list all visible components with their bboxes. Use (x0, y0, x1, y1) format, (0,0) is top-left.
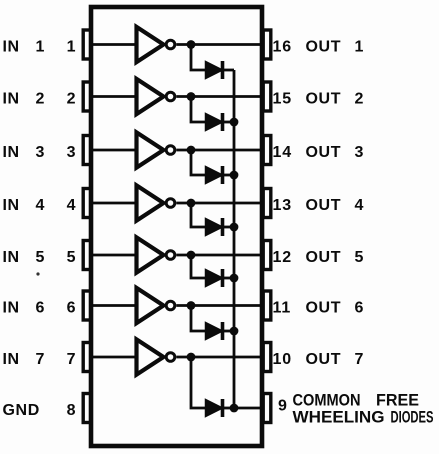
wire diode D1 cathode to common rail (223, 69, 235, 72)
net label IN 7 (3, 351, 46, 368)
svg-text:OUT: OUT (306, 144, 342, 161)
wire junction to diode D2 anode (191, 97, 206, 123)
net label OUT 6 (306, 300, 365, 317)
svg-text:1: 1 (67, 39, 76, 56)
junction node diode D4 cathode on rail (230, 223, 239, 232)
inverter U6 (137, 288, 175, 323)
svg-text:5: 5 (355, 249, 365, 266)
diode D7 (206, 399, 223, 417)
svg-text:IN: IN (3, 197, 20, 214)
junction node diode D7 cathode on rail (230, 404, 239, 413)
junction node row 6 output (187, 301, 196, 310)
svg-text:OUT: OUT (306, 197, 342, 214)
svg-text:16: 16 (273, 39, 292, 56)
wire pin 4 to inverter U4 input (91, 202, 137, 205)
wire inverter U2 output to pin 15 (176, 95, 262, 98)
svg-text:4: 4 (67, 197, 76, 214)
svg-text:3: 3 (355, 144, 365, 161)
net label IN 5 (3, 249, 46, 266)
svg-text:9: 9 (278, 398, 287, 415)
inverter U5 (137, 237, 175, 272)
diode D3 (206, 166, 223, 184)
svg-text:11: 11 (273, 300, 292, 317)
wire junction to diode D3 anode (191, 150, 206, 175)
net label OUT 4 (306, 197, 365, 214)
junction node row 3 output (187, 146, 196, 155)
wire pin 6 to inverter U6 input (91, 304, 137, 307)
wire junction to diode D6 anode (191, 306, 206, 332)
junction node diode D3 cathode on rail (230, 171, 239, 180)
inverter U3 (137, 132, 175, 167)
pin 5 lead (83, 241, 91, 270)
svg-text:3: 3 (67, 144, 76, 161)
pin 4 lead (83, 189, 91, 218)
junction node row 5 output (187, 251, 196, 260)
wire inverter U4 output to pin 13 (176, 202, 262, 205)
wire rail to pin 9 (234, 407, 262, 410)
scan speck (36, 272, 39, 275)
wire diode D5 cathode to common rail (223, 277, 235, 280)
wire junction to diode D1 anode (191, 45, 206, 71)
svg-text:5: 5 (67, 249, 76, 266)
pin 11 lead (263, 291, 271, 320)
pin 3 lead (83, 136, 91, 165)
wire diode D6 cathode to common rail (223, 330, 235, 333)
junction node row 1 output (187, 40, 196, 49)
wire inverter U7 output to pin 10 (176, 356, 262, 359)
wire junction to diode D7 anode (191, 357, 206, 408)
svg-text:1: 1 (355, 39, 365, 56)
wire diode D4 cathode to common rail (223, 226, 235, 229)
svg-text:GND: GND (3, 402, 40, 419)
pin 14 lead (263, 136, 271, 165)
net label OUT 2 (306, 91, 365, 108)
svg-text:OUT: OUT (306, 351, 342, 368)
wire pin 7 to inverter U7 input (91, 356, 137, 359)
pin 16 lead (263, 30, 271, 59)
svg-text:IN: IN (3, 351, 20, 368)
common free-wheeling diode rail (233, 70, 236, 408)
net label COMMON FREE WHEELING DIODES (293, 391, 434, 427)
net label IN 2 (3, 91, 46, 108)
svg-text:IN: IN (3, 39, 20, 56)
svg-text:12: 12 (273, 249, 292, 266)
svg-text:10: 10 (273, 351, 292, 368)
svg-text:7: 7 (36, 351, 46, 368)
pin 8 lead (83, 394, 91, 423)
wire diode D7 cathode to common rail (223, 407, 235, 410)
net label IN 6 (3, 300, 46, 317)
wire pin 5 to inverter U5 input (91, 254, 137, 257)
svg-text:14: 14 (273, 144, 292, 161)
pin 10 lead (263, 343, 271, 372)
svg-text:5: 5 (36, 249, 46, 266)
svg-text:2: 2 (36, 91, 46, 108)
svg-text:4: 4 (355, 197, 365, 214)
wire inverter U1 output to pin 16 (176, 43, 262, 46)
wire inverter U3 output to pin 14 (176, 149, 262, 152)
svg-text:IN: IN (3, 91, 20, 108)
svg-text:6: 6 (36, 300, 46, 317)
net label OUT 3 (306, 144, 365, 161)
svg-text:6: 6 (67, 300, 76, 317)
diode D4 (206, 218, 223, 236)
svg-text:2: 2 (355, 91, 365, 108)
svg-text:IN: IN (3, 300, 20, 317)
pin 15 lead (263, 82, 271, 111)
svg-text:IN: IN (3, 249, 20, 266)
net label IN 3 (3, 144, 46, 161)
pin 7 lead (83, 343, 91, 372)
pin 6 lead (83, 291, 91, 320)
junction node row 2 output (187, 92, 196, 101)
svg-text:4: 4 (36, 197, 46, 214)
pin 9 lead (263, 394, 271, 423)
svg-text:3: 3 (36, 144, 46, 161)
wire diode D3 cathode to common rail (223, 174, 235, 177)
inverter U1 (137, 27, 175, 62)
svg-text:7: 7 (355, 351, 365, 368)
svg-text:7: 7 (67, 351, 76, 368)
svg-text:WHEELING: WHEELING (293, 408, 385, 427)
wire junction to diode D5 anode (191, 255, 206, 278)
svg-text:13: 13 (273, 197, 292, 214)
svg-text:8: 8 (67, 402, 76, 419)
diode D6 (206, 322, 223, 340)
svg-text:OUT: OUT (306, 91, 342, 108)
net label OUT 7 (306, 351, 365, 368)
svg-text:OUT: OUT (306, 300, 342, 317)
diode D1 (206, 61, 223, 79)
wire inverter U6 output to pin 11 (176, 304, 262, 307)
pin 12 lead (263, 241, 271, 270)
inverter U7 (137, 339, 175, 374)
net label OUT 1 (306, 39, 365, 56)
wire pin 3 to inverter U3 input (91, 149, 137, 152)
junction node diode D5 cathode on rail (230, 274, 239, 283)
wire inverter U5 output to pin 12 (176, 254, 262, 257)
pin 1 lead (83, 30, 91, 59)
pin 2 lead (83, 82, 91, 111)
svg-text:15: 15 (273, 91, 292, 108)
IC body outline (91, 7, 262, 446)
svg-text:2: 2 (67, 91, 76, 108)
wire pin 2 to inverter U2 input (91, 95, 137, 98)
junction node row 4 output (187, 199, 196, 208)
svg-text:1: 1 (36, 39, 46, 56)
svg-text:6: 6 (355, 300, 365, 317)
net label IN 4 (3, 197, 46, 214)
wire diode D2 cathode to common rail (223, 121, 235, 124)
diode D2 (206, 113, 223, 131)
inverter U2 (137, 79, 175, 114)
pin 13 lead (263, 189, 271, 218)
inverter U4 (137, 185, 175, 220)
junction node diode D6 cathode on rail (230, 327, 239, 336)
junction node diode D2 cathode on rail (230, 118, 239, 127)
svg-text:IN: IN (3, 144, 20, 161)
net label IN 1 (3, 39, 46, 56)
net label OUT 5 (306, 249, 365, 266)
junction node row 7 output (187, 353, 196, 362)
svg-text:OUT: OUT (306, 39, 342, 56)
wire pin 1 to inverter U1 input (91, 43, 137, 46)
svg-text:OUT: OUT (306, 249, 342, 266)
diode D5 (206, 269, 223, 287)
wire junction to diode D4 anode (191, 203, 206, 227)
svg-text:DIODES: DIODES (391, 408, 434, 427)
